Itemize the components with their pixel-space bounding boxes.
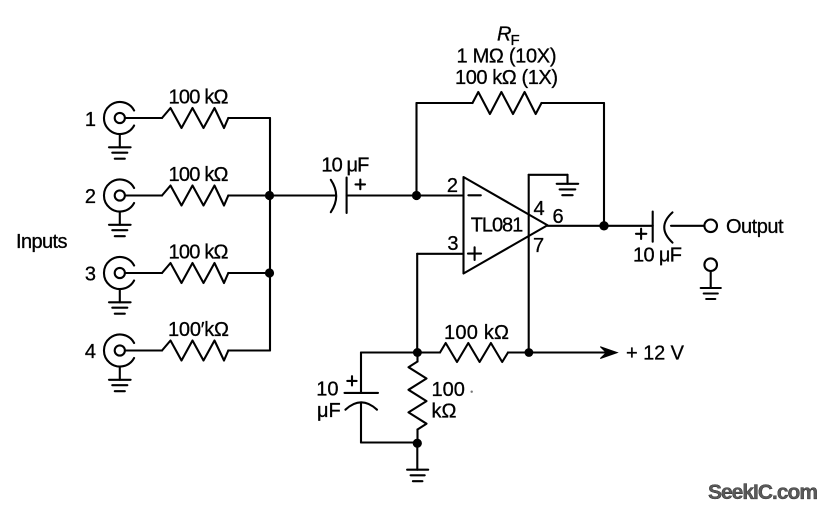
svg-text:kΩ: kΩ xyxy=(432,401,457,423)
svg-text:1: 1 xyxy=(85,109,96,131)
svg-text:1 MΩ (10X): 1 MΩ (10X) xyxy=(457,46,557,68)
svg-text:+ 12 V: + 12 V xyxy=(626,343,685,365)
svg-text:4: 4 xyxy=(85,341,96,363)
svg-text:SeekIC.com: SeekIC.com xyxy=(708,481,818,504)
svg-text:TL081: TL081 xyxy=(471,215,524,237)
svg-text:4: 4 xyxy=(534,198,545,220)
svg-text:2: 2 xyxy=(447,175,458,197)
svg-text:100 kΩ: 100 kΩ xyxy=(444,322,509,344)
svg-text:100 kΩ (1X): 100 kΩ (1X) xyxy=(455,67,558,89)
svg-text:2: 2 xyxy=(85,186,96,208)
svg-text:100 kΩ: 100 kΩ xyxy=(169,242,229,264)
svg-text:7: 7 xyxy=(533,235,544,257)
svg-text:100 kΩ: 100 kΩ xyxy=(169,87,229,109)
svg-text:Inputs: Inputs xyxy=(16,231,68,253)
svg-text:μF: μF xyxy=(317,400,341,422)
svg-text:100′kΩ: 100′kΩ xyxy=(168,319,229,341)
svg-text:10 μF: 10 μF xyxy=(321,155,369,177)
svg-text:3: 3 xyxy=(447,233,458,255)
svg-text:10 μF: 10 μF xyxy=(633,245,682,267)
svg-text:100 kΩ: 100 kΩ xyxy=(169,164,229,186)
svg-text:3: 3 xyxy=(85,264,96,286)
svg-text:100: 100 xyxy=(432,379,465,401)
svg-text:R: R xyxy=(497,24,511,46)
svg-text:6: 6 xyxy=(553,206,564,228)
svg-text:Output: Output xyxy=(726,216,784,238)
svg-text:10: 10 xyxy=(316,379,338,401)
